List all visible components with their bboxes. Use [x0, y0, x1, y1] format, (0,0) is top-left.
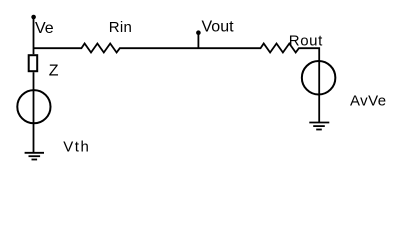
- svg-text:Z: Z: [49, 63, 59, 80]
- svg-text:Rout: Rout: [289, 33, 323, 50]
- svg-text:Ve: Ve: [35, 20, 54, 37]
- svg-text:AvVe: AvVe: [350, 92, 387, 109]
- svg-text:Vout: Vout: [202, 19, 235, 36]
- svg-text:Vth: Vth: [63, 139, 90, 156]
- svg-text:Rin: Rin: [109, 19, 132, 36]
